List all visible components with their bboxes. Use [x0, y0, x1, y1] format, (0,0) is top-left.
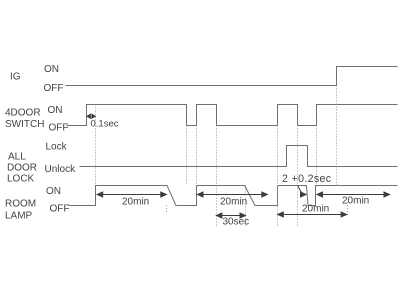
- wire ROOM LAMP waveform: [69, 186, 398, 206]
- svg-text:Lock: Lock: [46, 142, 68, 153]
- dimension arrow 20min (first lamp period): [97, 192, 166, 197]
- arrow pointing at lamp dip left edge: [301, 192, 307, 197]
- dotted guide line t7 (door open 3): [277, 126, 279, 227]
- svg-text:20min: 20min: [122, 197, 149, 208]
- dimension arrow 20min (after dip, right): [317, 192, 390, 197]
- dotted guide line t5 (door close 2): [216, 126, 218, 227]
- dotted guide line t6 (fade 2 start): [245, 186, 247, 227]
- svg-text:4DOOR: 4DOOR: [5, 108, 41, 119]
- svg-text:Unlock: Unlock: [45, 164, 77, 175]
- svg-text:OFF: OFF: [49, 123, 69, 134]
- svg-text:IG: IG: [10, 72, 21, 83]
- svg-text:2 +0.2sec: 2 +0.2sec: [282, 173, 332, 185]
- svg-text:ON: ON: [48, 105, 63, 116]
- dimension arrow 20min (bottom): [278, 212, 347, 217]
- dimension arrow 20min (second lamp period): [198, 192, 268, 197]
- dotted guide line t1 (0.1sec mark): [95, 105, 97, 186]
- dotted guide line t4 (door open 2): [196, 126, 198, 186]
- svg-text:OFF: OFF: [50, 204, 70, 215]
- dotted guide line t9 (door open 4): [316, 126, 318, 186]
- svg-text:0.1sec: 0.1sec: [91, 119, 119, 130]
- dotted guide line t2 (first lamp fade): [166, 205, 168, 213]
- leader line from 2 +0.2sec to lamp dip: [298, 186, 303, 194]
- dotted guide line t10 (IG on): [336, 86, 338, 186]
- svg-text:DOOR: DOOR: [7, 163, 37, 174]
- svg-text:ON: ON: [44, 64, 59, 75]
- dimension arrow 30sec: [216, 213, 245, 218]
- svg-text:LOCK: LOCK: [7, 174, 35, 185]
- svg-text:ON: ON: [46, 186, 61, 197]
- svg-text:20min: 20min: [342, 196, 369, 207]
- wire ALL DOOR LOCK waveform: [80, 146, 398, 167]
- svg-text:20min: 20min: [302, 204, 329, 215]
- svg-text:SWITCH: SWITCH: [5, 119, 44, 130]
- dotted guide line t11 (20min end mark): [347, 202, 349, 215]
- svg-text:ROOM: ROOM: [5, 199, 36, 210]
- svg-text:30sec: 30sec: [223, 217, 250, 228]
- dotted guide line t3 (door close 1): [186, 126, 188, 186]
- svg-text:OFF: OFF: [44, 83, 64, 94]
- wire 4DOOR SWITCH waveform: [67, 105, 398, 126]
- svg-text:LAMP: LAMP: [5, 211, 33, 222]
- wire IG waveform: [66, 67, 398, 86]
- dimension arrow 0.1sec: [87, 114, 95, 118]
- dotted guide line t8 (door close 3): [297, 126, 299, 227]
- svg-text:20min: 20min: [220, 197, 247, 208]
- svg-text:ALL: ALL: [8, 152, 26, 163]
